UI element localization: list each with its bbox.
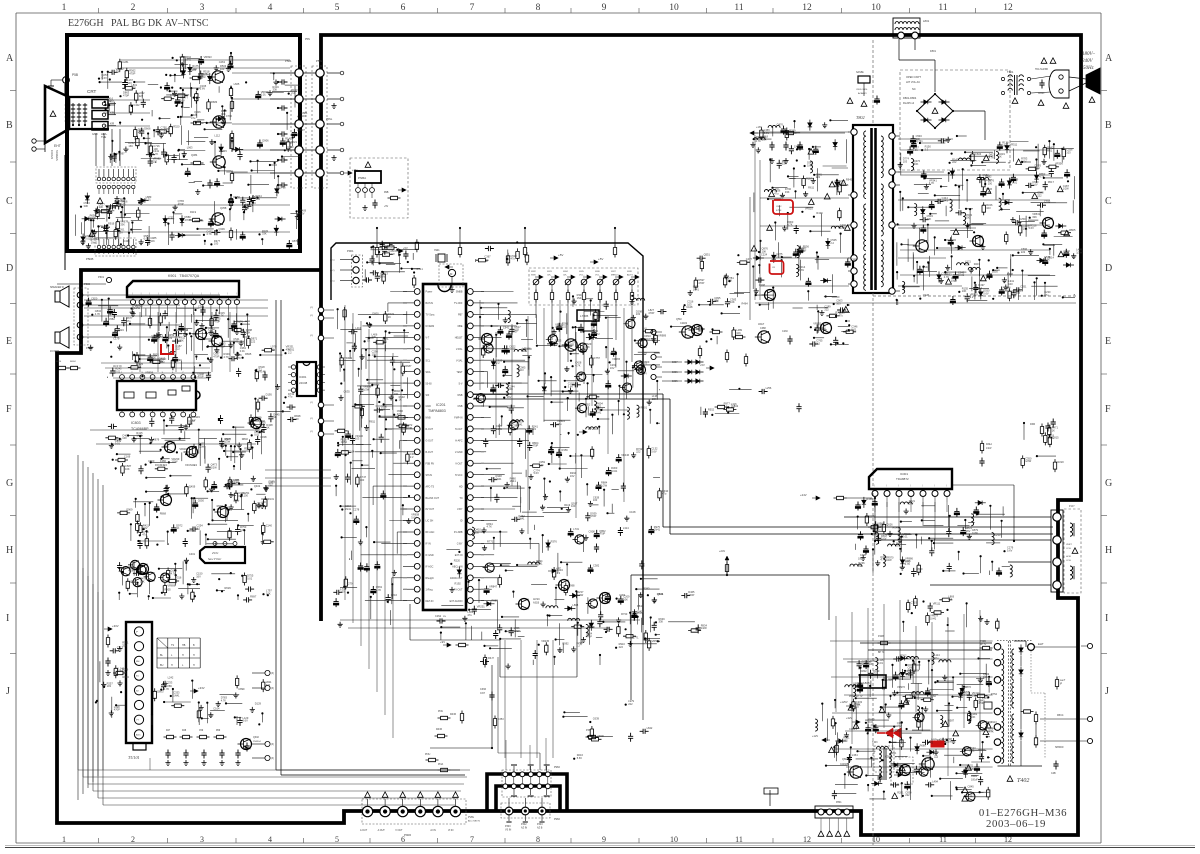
svg-text:C281: C281 bbox=[122, 60, 129, 64]
svg-text:H: H bbox=[193, 654, 195, 657]
svg-text:C604: C604 bbox=[975, 152, 982, 156]
svg-text:222: 222 bbox=[843, 738, 848, 742]
svg-text:Q551: Q551 bbox=[704, 253, 711, 257]
svg-text:F: F bbox=[6, 404, 12, 415]
svg-text:470P: 470P bbox=[198, 375, 204, 379]
svg-text:AZ B: AZ B bbox=[537, 827, 543, 830]
svg-text:D: D bbox=[1105, 263, 1112, 274]
svg-text:C: C bbox=[6, 196, 13, 207]
svg-text:222: 222 bbox=[168, 336, 173, 340]
svg-text:TC4066BP: TC4066BP bbox=[131, 427, 149, 431]
svg-text:NC: NC bbox=[912, 87, 916, 91]
svg-text:180V–: 180V– bbox=[1082, 52, 1096, 57]
svg-text:16V: 16V bbox=[143, 526, 148, 530]
svg-text:2.2: 2.2 bbox=[925, 147, 929, 151]
svg-text:EXT-IN: EXT-IN bbox=[455, 554, 463, 557]
svg-text:P601: P601 bbox=[98, 275, 105, 279]
svg-text:33K: 33K bbox=[122, 643, 127, 647]
svg-text:24C08: 24C08 bbox=[299, 381, 308, 385]
svg-text:C-BY: C-BY bbox=[457, 543, 463, 546]
svg-text:0.01: 0.01 bbox=[903, 535, 909, 539]
svg-text:222: 222 bbox=[139, 94, 144, 98]
svg-text:FOCUS: FOCUS bbox=[50, 150, 54, 159]
svg-text:5.6V: 5.6V bbox=[200, 87, 206, 91]
svg-text:PNU: PNU bbox=[438, 710, 443, 713]
svg-text:4.7K: 4.7K bbox=[219, 314, 225, 318]
svg-text:R3M: R3M bbox=[1030, 423, 1035, 426]
svg-text:+30V: +30V bbox=[112, 624, 119, 628]
svg-text:C250: C250 bbox=[1019, 217, 1026, 221]
svg-text:4.7K: 4.7K bbox=[153, 152, 159, 156]
svg-text:+9V: +9V bbox=[440, 640, 445, 644]
svg-text:CN7: CN7 bbox=[480, 692, 486, 695]
svg-text:1K: 1K bbox=[999, 155, 1002, 159]
svg-text:PVBL: PVBL bbox=[468, 816, 475, 819]
svg-text:+24V: +24V bbox=[800, 493, 807, 497]
svg-text:H-OUT: H-OUT bbox=[455, 428, 463, 431]
svg-text:0.01: 0.01 bbox=[539, 463, 545, 467]
svg-text:(C): (C) bbox=[310, 307, 313, 309]
svg-text:R436: R436 bbox=[450, 713, 457, 716]
svg-text:IF GND: IF GND bbox=[426, 554, 434, 557]
svg-text:PK08 2P 7V: PK08 2P 7V bbox=[849, 695, 863, 698]
svg-text:VR554: VR554 bbox=[652, 639, 660, 643]
svg-text:R-OUT: R-OUT bbox=[426, 428, 434, 431]
svg-text:A OUT: A OUT bbox=[378, 829, 386, 832]
svg-text:222: 222 bbox=[905, 793, 910, 797]
svg-text:16V: 16V bbox=[128, 144, 133, 148]
svg-text:R697: R697 bbox=[250, 594, 257, 598]
svg-text:(SC): (SC) bbox=[330, 260, 335, 262]
svg-text:33K: 33K bbox=[659, 620, 664, 624]
svg-text:C2482B: C2482B bbox=[840, 764, 849, 766]
svg-text:P801: P801 bbox=[836, 801, 842, 804]
svg-text:9: 9 bbox=[602, 835, 606, 844]
svg-text:E276GH PAL BG DK AV–NTSC: E276GH PAL BG DK AV–NTSC bbox=[68, 18, 209, 29]
svg-text:TDA NU2SB: TDA NU2SB bbox=[1035, 68, 1048, 71]
svg-text:C8NN: C8NN bbox=[1038, 93, 1045, 95]
svg-text:4.7K: 4.7K bbox=[487, 525, 493, 529]
svg-text:5.6V: 5.6V bbox=[651, 449, 657, 453]
svg-text:222: 222 bbox=[858, 564, 863, 568]
svg-text:V-3AL: V-3AL bbox=[456, 359, 463, 362]
svg-text:1/2W: 1/2W bbox=[1025, 459, 1032, 463]
svg-text:103: 103 bbox=[1066, 150, 1071, 154]
svg-text:COIL: COIL bbox=[1066, 548, 1072, 550]
svg-text:1N41: 1N41 bbox=[173, 693, 180, 697]
svg-text:Q969: Q969 bbox=[126, 507, 133, 511]
svg-text:33K: 33K bbox=[914, 162, 919, 166]
svg-text:A: A bbox=[6, 53, 14, 64]
svg-text:H: H bbox=[171, 664, 173, 667]
svg-text:7: 7 bbox=[470, 3, 475, 13]
svg-text:1K: 1K bbox=[176, 526, 179, 530]
svg-text:103: 103 bbox=[131, 86, 136, 90]
svg-text:100: 100 bbox=[593, 498, 598, 502]
svg-text:4.7K: 4.7K bbox=[376, 588, 382, 592]
svg-text:2.2: 2.2 bbox=[978, 286, 982, 290]
svg-text:EHT: EHT bbox=[1038, 642, 1044, 646]
svg-text:C908: C908 bbox=[589, 529, 596, 533]
svg-text:SH-IN: SH-IN bbox=[426, 474, 433, 477]
svg-text:R968: R968 bbox=[160, 512, 167, 516]
svg-text:103: 103 bbox=[965, 262, 970, 266]
svg-text:C140: C140 bbox=[266, 523, 273, 527]
svg-text:100: 100 bbox=[244, 494, 249, 498]
svg-text:10: 10 bbox=[670, 835, 678, 844]
svg-text:SMBB: SMBB bbox=[456, 291, 463, 294]
svg-text:KB: KB bbox=[110, 111, 114, 115]
svg-text:R458: R458 bbox=[866, 497, 873, 501]
svg-text:C340: C340 bbox=[287, 145, 294, 149]
svg-text:P906: P906 bbox=[404, 833, 411, 837]
svg-text:R905: R905 bbox=[164, 587, 171, 591]
svg-text:1K: 1K bbox=[1052, 428, 1055, 432]
svg-text:NNB: NNB bbox=[426, 417, 431, 420]
svg-text:VI IN: VI IN bbox=[448, 829, 454, 832]
svg-text:222: 222 bbox=[824, 307, 829, 311]
svg-text:B-OUT: B-OUT bbox=[426, 451, 434, 454]
svg-text:TMPA8803: TMPA8803 bbox=[428, 409, 446, 413]
svg-text:GND: GND bbox=[92, 132, 98, 136]
svg-text:SW6: SW6 bbox=[595, 271, 601, 273]
svg-text:4.7K: 4.7K bbox=[164, 687, 170, 691]
svg-text:R629: R629 bbox=[225, 586, 232, 590]
svg-text:D: D bbox=[6, 263, 13, 274]
svg-text:10K: 10K bbox=[140, 579, 145, 583]
svg-text:2.2: 2.2 bbox=[970, 295, 974, 299]
svg-text:+33V: +33V bbox=[198, 686, 205, 690]
svg-text:H: H bbox=[6, 545, 13, 556]
svg-text:2: 2 bbox=[131, 835, 135, 844]
svg-text:T801: T801 bbox=[1007, 70, 1014, 74]
svg-text:R840: R840 bbox=[242, 437, 249, 441]
svg-text:HOR: HOR bbox=[1066, 556, 1071, 558]
svg-text:VR693: VR693 bbox=[204, 55, 212, 59]
svg-text:(3): (3) bbox=[271, 673, 274, 675]
svg-text:0.01: 0.01 bbox=[261, 93, 267, 97]
svg-text:16V: 16V bbox=[180, 98, 185, 102]
svg-text:5.6V: 5.6V bbox=[807, 163, 813, 167]
svg-text:VOL: VOL bbox=[426, 348, 431, 351]
svg-text:G: G bbox=[1105, 478, 1112, 489]
svg-text:C84C: C84C bbox=[776, 206, 782, 208]
svg-text:470P: 470P bbox=[123, 94, 129, 98]
svg-text:R614: R614 bbox=[56, 361, 62, 363]
svg-text:D906: D906 bbox=[262, 139, 269, 143]
svg-text:10: 10 bbox=[669, 3, 679, 13]
svg-text:C790: C790 bbox=[226, 114, 233, 118]
svg-text:470P: 470P bbox=[129, 72, 135, 76]
svg-text:12: 12 bbox=[1003, 3, 1013, 13]
svg-text:5.6V: 5.6V bbox=[799, 268, 805, 272]
svg-text:1/2W: 1/2W bbox=[946, 740, 953, 744]
svg-text:C59: C59 bbox=[199, 730, 204, 732]
svg-text:222: 222 bbox=[1021, 250, 1026, 254]
svg-text:R436: R436 bbox=[436, 728, 443, 731]
svg-text:L354: L354 bbox=[852, 753, 858, 757]
svg-text:33K: 33K bbox=[246, 331, 251, 335]
svg-text:L279: L279 bbox=[347, 581, 353, 585]
svg-text:10K: 10K bbox=[137, 365, 142, 369]
svg-text:47u: 47u bbox=[467, 613, 472, 617]
svg-text:33K: 33K bbox=[927, 217, 932, 221]
svg-text:C402: C402 bbox=[133, 103, 140, 107]
svg-text:ID: ID bbox=[460, 520, 463, 523]
svg-text:VOL+: VOL+ bbox=[579, 275, 585, 277]
svg-text:C351: C351 bbox=[1020, 284, 1027, 288]
svg-text:ABCL-VN: ABCL-VN bbox=[452, 566, 463, 569]
svg-text:R3&4: R3&4 bbox=[986, 444, 992, 446]
svg-text:470P: 470P bbox=[213, 355, 219, 359]
svg-text:VR419: VR419 bbox=[344, 356, 352, 360]
svg-text:16V: 16V bbox=[196, 574, 201, 578]
svg-text:RF AGC: RF AGC bbox=[426, 531, 435, 534]
svg-text:ACABSY: ACABSY bbox=[858, 92, 867, 95]
svg-text:222: 222 bbox=[1037, 194, 1042, 198]
svg-text:H: H bbox=[1105, 545, 1112, 556]
svg-text:R611: R611 bbox=[808, 186, 815, 190]
svg-text:L963: L963 bbox=[187, 146, 193, 150]
svg-text:VR251: VR251 bbox=[477, 605, 485, 609]
svg-text:222: 222 bbox=[816, 175, 821, 179]
svg-text:L179: L179 bbox=[114, 337, 120, 341]
svg-text:VR989: VR989 bbox=[658, 333, 666, 337]
svg-text:R464: R464 bbox=[742, 301, 749, 305]
svg-text:R283: R283 bbox=[643, 587, 650, 591]
svg-text:C639: C639 bbox=[593, 717, 600, 721]
svg-text:T403: T403 bbox=[872, 741, 878, 744]
svg-text:C757: C757 bbox=[594, 356, 601, 360]
svg-text:CH-: CH- bbox=[563, 275, 567, 277]
svg-text:+5V: +5V bbox=[384, 206, 389, 208]
svg-text:BLANK OUT: BLANK OUT bbox=[426, 497, 440, 500]
svg-text:6: 6 bbox=[401, 3, 406, 13]
svg-text:16V: 16V bbox=[118, 669, 123, 673]
svg-text:103: 103 bbox=[570, 343, 575, 347]
svg-text:1N41: 1N41 bbox=[942, 199, 949, 203]
svg-text:PNU: PNU bbox=[425, 753, 430, 756]
svg-text:103: 103 bbox=[746, 260, 751, 264]
svg-text:C278: C278 bbox=[353, 508, 360, 512]
svg-text:R552: R552 bbox=[708, 408, 715, 412]
svg-text:10K: 10K bbox=[736, 331, 741, 335]
svg-text:1K: 1K bbox=[388, 315, 391, 319]
svg-text:R649: R649 bbox=[893, 525, 900, 529]
svg-text:103: 103 bbox=[515, 328, 520, 332]
svg-text:C210: C210 bbox=[994, 533, 1001, 537]
svg-text:BAT-IN: BAT-IN bbox=[426, 302, 434, 305]
svg-text:47u: 47u bbox=[286, 347, 291, 351]
svg-text:R945: R945 bbox=[846, 178, 853, 182]
svg-text:EXT-AUDIO: EXT-AUDIO bbox=[450, 600, 463, 603]
svg-text:1/2W: 1/2W bbox=[171, 460, 178, 464]
svg-text:VOL-: VOL- bbox=[595, 275, 600, 277]
svg-text:33K: 33K bbox=[869, 662, 874, 666]
svg-text:470P: 470P bbox=[214, 319, 220, 323]
svg-text:TDA8872: TDA8872 bbox=[896, 477, 909, 481]
svg-text:16 OHM: 16 OHM bbox=[50, 350, 59, 353]
svg-text:103: 103 bbox=[636, 312, 641, 316]
svg-text:103: 103 bbox=[519, 368, 524, 372]
svg-text:10K: 10K bbox=[266, 592, 271, 596]
svg-text:Q801: Q801 bbox=[842, 758, 849, 761]
svg-text:4.7K: 4.7K bbox=[905, 562, 911, 566]
svg-text:0.01: 0.01 bbox=[896, 544, 902, 548]
svg-text:VR997: VR997 bbox=[117, 152, 125, 156]
svg-text:103: 103 bbox=[192, 67, 197, 71]
svg-text:PNBA: PNBA bbox=[358, 176, 366, 180]
svg-text:R192: R192 bbox=[455, 581, 462, 585]
svg-text:5.6V: 5.6V bbox=[1029, 226, 1035, 230]
svg-text:0.01: 0.01 bbox=[115, 369, 121, 373]
svg-text:1: 1 bbox=[62, 3, 67, 13]
svg-text:100uF: 100uF bbox=[971, 779, 978, 782]
svg-text:F353: F353 bbox=[498, 718, 504, 721]
svg-text:R845: R845 bbox=[245, 352, 252, 356]
svg-text:IF AGC: IF AGC bbox=[426, 566, 434, 569]
svg-text:1805: 1805 bbox=[863, 681, 870, 685]
svg-text:NVRAM: NVRAM bbox=[426, 325, 435, 328]
svg-text:R811: R811 bbox=[369, 419, 376, 423]
svg-text:SDA: SDA bbox=[426, 371, 431, 374]
svg-text:50Hz: 50Hz bbox=[1083, 66, 1094, 71]
svg-text:G-OUT: G-OUT bbox=[426, 440, 434, 443]
svg-text:C523: C523 bbox=[130, 579, 137, 583]
svg-text:C928: C928 bbox=[923, 293, 930, 297]
svg-text:33K: 33K bbox=[475, 531, 480, 535]
svg-text:V OUT: V OUT bbox=[395, 829, 403, 832]
svg-text:100: 100 bbox=[571, 504, 576, 508]
svg-text:VR696: VR696 bbox=[167, 584, 175, 588]
svg-text:C448: C448 bbox=[686, 305, 693, 309]
svg-text:Q5M: Q5M bbox=[676, 318, 681, 321]
svg-text:Q339: Q339 bbox=[218, 227, 225, 231]
svg-text:SCREEN: SCREEN bbox=[55, 150, 59, 161]
svg-text:L6JB: L6JB bbox=[160, 359, 166, 361]
svg-text:C401: C401 bbox=[189, 552, 196, 556]
svg-text:CH+: CH+ bbox=[547, 275, 552, 277]
svg-text:TN: TN bbox=[459, 497, 462, 500]
svg-text:D195: D195 bbox=[266, 393, 273, 397]
svg-text:222: 222 bbox=[268, 482, 273, 486]
svg-text:(C): (C) bbox=[644, 373, 647, 375]
svg-text:16V: 16V bbox=[271, 348, 276, 352]
svg-text:A31B: A31B bbox=[533, 602, 539, 605]
svg-text:(SC): (SC) bbox=[330, 281, 335, 283]
svg-text:(C): (C) bbox=[310, 315, 313, 317]
svg-text:CRT: CRT bbox=[87, 89, 97, 94]
svg-text:CN05 VN5L: CN05 VN5L bbox=[856, 89, 868, 91]
svg-text:4.7K: 4.7K bbox=[988, 730, 994, 734]
svg-text:100: 100 bbox=[294, 417, 299, 421]
svg-text:47u: 47u bbox=[191, 116, 196, 120]
svg-text:DBE: DBE bbox=[458, 325, 463, 328]
svg-text:0.01: 0.01 bbox=[247, 576, 253, 580]
svg-text:L539: L539 bbox=[877, 522, 883, 526]
svg-text:10K: 10K bbox=[762, 249, 767, 253]
svg-text:R429: R429 bbox=[816, 211, 823, 215]
svg-text:C4B: C4B bbox=[1051, 772, 1056, 775]
svg-text:L7805: L7805 bbox=[580, 314, 589, 318]
svg-text:470P: 470P bbox=[406, 426, 412, 430]
svg-text:Q358: Q358 bbox=[220, 206, 227, 210]
svg-text:FV-3MB: FV-3MB bbox=[454, 531, 463, 534]
svg-text:R47: R47 bbox=[166, 730, 171, 732]
svg-text:S-V: S-V bbox=[459, 382, 463, 385]
svg-text:VR301: VR301 bbox=[639, 406, 647, 410]
svg-text:C899: C899 bbox=[238, 687, 245, 691]
svg-text:0.01: 0.01 bbox=[878, 661, 884, 665]
svg-text:(C): (C) bbox=[644, 363, 647, 365]
svg-text:33K: 33K bbox=[908, 668, 913, 672]
svg-text:100: 100 bbox=[360, 478, 365, 482]
svg-text:10K: 10K bbox=[125, 467, 130, 471]
svg-text:1N41: 1N41 bbox=[495, 477, 502, 481]
svg-text:16V: 16V bbox=[610, 366, 615, 370]
svg-text:J: J bbox=[1105, 686, 1109, 697]
svg-text:SW5: SW5 bbox=[579, 271, 585, 273]
svg-text:C320: C320 bbox=[849, 727, 856, 731]
svg-text:EHT: EHT bbox=[54, 144, 61, 148]
svg-text:470P: 470P bbox=[688, 593, 694, 597]
svg-text:14VCC: 14VCC bbox=[588, 427, 599, 431]
svg-text:SW2: SW2 bbox=[531, 271, 537, 273]
svg-text:R119: R119 bbox=[564, 503, 571, 507]
svg-text:P40B: P40B bbox=[980, 640, 986, 643]
svg-text:BM: BM bbox=[136, 661, 139, 663]
svg-text:L801: L801 bbox=[923, 19, 930, 23]
svg-text:SW7: SW7 bbox=[611, 271, 617, 273]
svg-text:I: I bbox=[6, 613, 9, 624]
svg-text:H-AFC: H-AFC bbox=[455, 440, 463, 443]
svg-text:470P: 470P bbox=[862, 662, 868, 666]
svg-text:4: 4 bbox=[268, 3, 273, 13]
svg-text:P901: P901 bbox=[347, 249, 354, 253]
svg-text:C230: C230 bbox=[782, 330, 788, 333]
svg-text:4.7K: 4.7K bbox=[236, 356, 242, 360]
svg-text:1-Ring: 1-Ring bbox=[426, 588, 434, 591]
svg-text:C2N2: C2N2 bbox=[435, 615, 442, 618]
svg-text:Q803: Q803 bbox=[657, 592, 664, 596]
svg-text:P-DY: P-DY bbox=[1069, 505, 1075, 508]
svg-text:16V: 16V bbox=[127, 81, 132, 85]
svg-text:L/C SH: L/C SH bbox=[426, 520, 434, 523]
svg-text:470P: 470P bbox=[114, 708, 120, 712]
svg-text:2.2: 2.2 bbox=[948, 597, 952, 601]
svg-text:Q459: Q459 bbox=[189, 485, 196, 489]
svg-text:H-VCC: H-VCC bbox=[455, 474, 463, 477]
svg-text:X901: X901 bbox=[434, 249, 440, 252]
svg-text:R316: R316 bbox=[387, 245, 394, 249]
svg-text:C: C bbox=[1105, 196, 1112, 207]
svg-text:5.6V: 5.6V bbox=[411, 516, 417, 520]
svg-text:SW3: SW3 bbox=[547, 271, 553, 273]
svg-text:D800: D800 bbox=[372, 312, 379, 316]
svg-text:VERT: VERT bbox=[1066, 544, 1072, 546]
svg-text:240V: 240V bbox=[1082, 59, 1094, 64]
svg-text:16V: 16V bbox=[570, 474, 575, 478]
svg-text:HD: HD bbox=[459, 485, 463, 488]
svg-text:2.2: 2.2 bbox=[192, 418, 196, 422]
svg-text:3N: 3N bbox=[443, 616, 446, 618]
svg-text:222: 222 bbox=[952, 160, 957, 164]
svg-text:L665: L665 bbox=[234, 82, 240, 86]
svg-text:(C): (C) bbox=[310, 335, 313, 337]
svg-text:100: 100 bbox=[121, 202, 126, 206]
svg-text:10K: 10K bbox=[623, 597, 628, 601]
svg-text:2.2: 2.2 bbox=[557, 571, 561, 575]
